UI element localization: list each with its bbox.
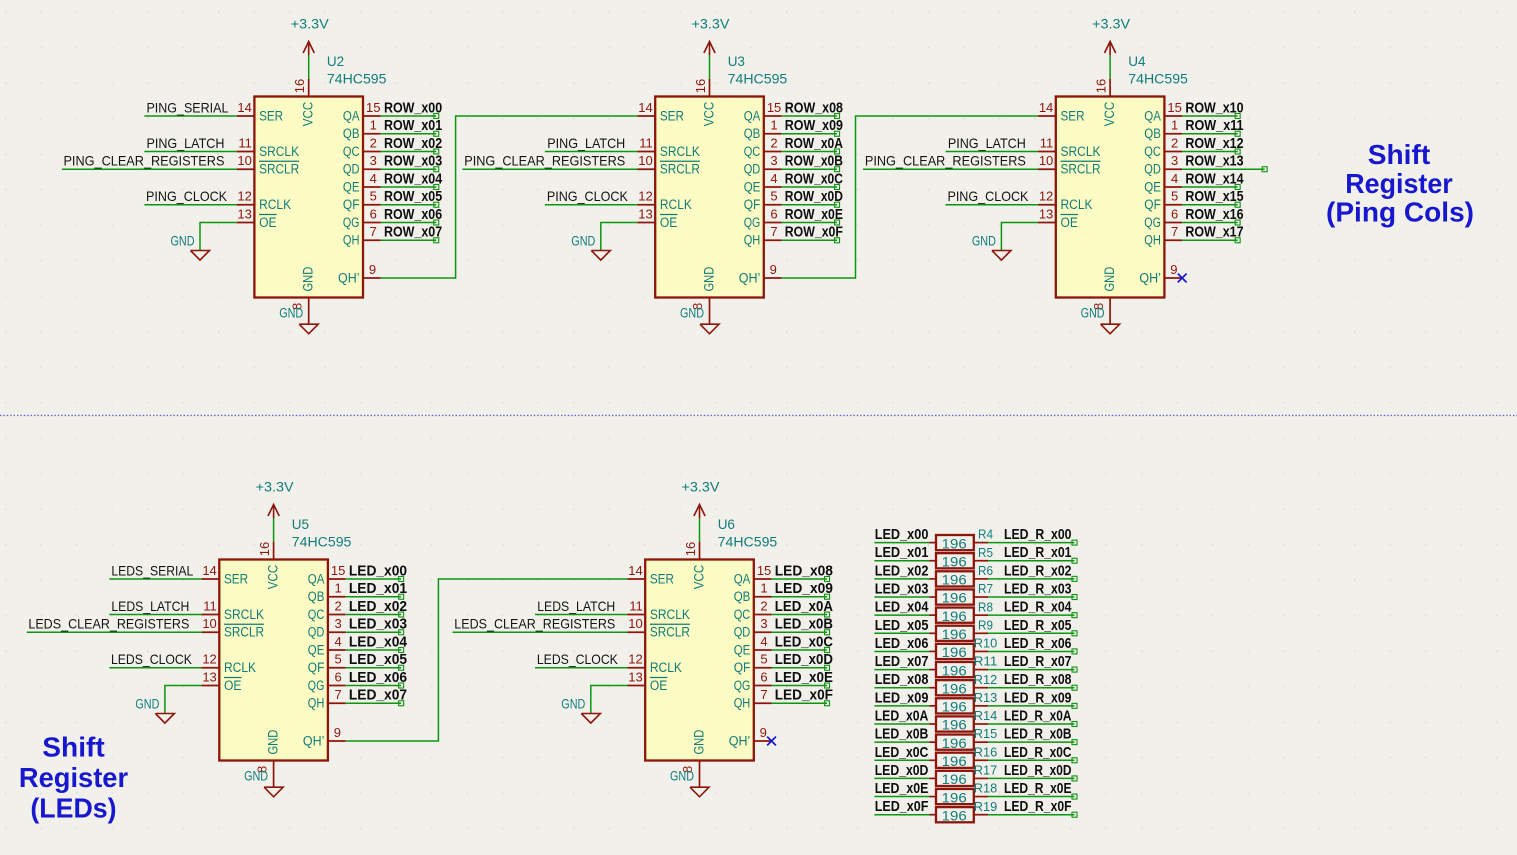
wire net LED_x04 to R8 [874, 614, 936, 616]
svg-text:LED_x08: LED_x08 [875, 671, 929, 688]
svg-text:LED_x0F: LED_x0F [875, 798, 929, 815]
svg-text:QA: QA [1144, 108, 1161, 123]
pin 15 (QA) of U5 [328, 563, 346, 579]
net label LEDS_CLOCK [111, 651, 193, 667]
svg-text:R17: R17 [974, 763, 998, 778]
net label LED_x01 [875, 544, 929, 561]
wire net LED_x06 to R10 [874, 650, 936, 652]
svg-text:QF: QF [1144, 197, 1161, 212]
svg-text:U6: U6 [718, 517, 735, 532]
wire net ROW_x09 from U3 [782, 131, 840, 136]
pin 6 (QG) of U2 [363, 206, 381, 222]
svg-text:QG: QG [1144, 215, 1161, 230]
pin 3 (QD) of U2 [363, 153, 381, 169]
pin 10 of U2 [237, 153, 255, 169]
net label LEDS_SERIAL [111, 562, 193, 578]
net label LED_R_x0C [1004, 744, 1072, 761]
wire net LED_R_x00 from R4 [974, 540, 1077, 545]
wire net LED_R_x0F from R19 [974, 812, 1077, 817]
svg-text:5: 5 [370, 189, 377, 204]
svg-text:R11: R11 [974, 654, 998, 669]
svg-text:LED_x01: LED_x01 [875, 544, 929, 561]
wire net LED_x05 to R9 [874, 632, 936, 634]
svg-text:(LEDs): (LEDs) [30, 793, 116, 824]
pin 15 (QA) of U3 [764, 100, 782, 116]
svg-text:R16: R16 [974, 744, 998, 759]
net label LED_x0A [775, 598, 833, 615]
svg-text:LED_x01: LED_x01 [349, 580, 407, 597]
pin 2 (QC) of U6 [754, 598, 772, 614]
svg-text:QD: QD [343, 162, 360, 177]
svg-text:16: 16 [693, 79, 708, 93]
svg-text:LED_R_x0A: LED_R_x0A [1004, 708, 1072, 725]
svg-text:QE: QE [744, 179, 761, 194]
net label LED_x05 [875, 617, 929, 634]
pin 4 (QE) of U3 [764, 171, 782, 187]
ground symbol below U5 [244, 769, 283, 797]
pin 3 (QD) of U6 [754, 616, 772, 632]
svg-text:13: 13 [638, 206, 652, 221]
pin 15 (QA) of U4 [1164, 100, 1182, 116]
pin 12 of U6 [627, 652, 645, 668]
svg-text:QH’: QH’ [338, 270, 360, 285]
power +3.3V above U4 [1092, 16, 1130, 78]
svg-text:+3.3V: +3.3V [682, 479, 720, 494]
svg-text:LED_x0A: LED_x0A [875, 708, 929, 725]
resistor R19 196 [936, 799, 997, 824]
svg-text:PING_CLEAR_REGISTERS: PING_CLEAR_REGISTERS [865, 153, 1026, 169]
svg-text:196: 196 [942, 736, 967, 751]
net label LED_x04 [875, 599, 929, 616]
svg-text:LED_R_x0F: LED_R_x0F [1004, 798, 1072, 815]
svg-text:13: 13 [202, 669, 216, 684]
net label ROW_x05 [384, 188, 442, 205]
svg-text:LED_x07: LED_x07 [349, 687, 407, 704]
wire net LED_x08 from U6 [772, 577, 830, 582]
svg-text:5: 5 [770, 189, 777, 204]
svg-text:LED_R_x01: LED_R_x01 [1004, 544, 1072, 561]
pin 15 (QA) of U2 [363, 100, 381, 116]
pin 11 of U2 [237, 135, 255, 151]
pin 12 of U5 [202, 652, 220, 668]
svg-text:LED_R_x04: LED_R_x04 [1004, 599, 1072, 616]
wire net LED_R_x0C from R16 [974, 758, 1077, 763]
pin 16 VCC of U5 [257, 542, 274, 560]
svg-text:196: 196 [942, 645, 967, 660]
net label LED_x07 [349, 687, 407, 704]
pin 13 of U6 [627, 669, 645, 685]
svg-text:QB: QB [308, 589, 325, 604]
wire OE of U2 to ground [200, 223, 237, 251]
svg-text:1: 1 [1171, 118, 1178, 133]
svg-text:LED_x0E: LED_x0E [775, 669, 833, 686]
svg-text:LED_R_x08: LED_R_x08 [1004, 671, 1072, 688]
svg-text:LED_x0E: LED_x0E [875, 780, 929, 797]
wire net LED_R_x0E from R18 [974, 794, 1077, 799]
svg-text:+3.3V: +3.3V [256, 479, 294, 494]
wire OE of U4 to ground [1001, 223, 1038, 251]
svg-text:QH’: QH’ [739, 270, 761, 285]
svg-text:RCLK: RCLK [660, 197, 692, 212]
pin 16 VCC of U2 [292, 79, 309, 97]
wire net LED_x04 from U5 [346, 648, 404, 653]
wire net LED_R_x02 from R6 [974, 576, 1077, 581]
pin 14 of U3 [637, 100, 655, 116]
svg-text:GND: GND [279, 306, 303, 321]
svg-text:LED_x03: LED_x03 [875, 581, 929, 598]
net label LED_R_x02 [1004, 562, 1072, 579]
wire net PING_CLEAR_REGISTERS to pin of U2 [62, 168, 237, 170]
wire net PING_CLOCK to pin of U3 [545, 204, 638, 206]
svg-text:74HC595: 74HC595 [718, 535, 778, 550]
svg-text:ROW_x16: ROW_x16 [1185, 206, 1243, 223]
ground symbol at OE of U5 [135, 697, 174, 724]
svg-text:R13: R13 [974, 690, 998, 705]
svg-text:QC: QC [308, 607, 325, 622]
pin 3 (QD) of U4 [1164, 153, 1182, 169]
svg-text:6: 6 [770, 206, 777, 221]
svg-text:1: 1 [370, 118, 377, 133]
ground symbol at OE of U4 [972, 234, 1011, 261]
svg-text:196: 196 [942, 681, 967, 696]
wire U5 QH' to U6 SER [346, 579, 628, 741]
resistor R12 196 [936, 672, 997, 697]
svg-text:QA: QA [343, 108, 360, 123]
net label PING_CLEAR_REGISTERS [865, 153, 1026, 169]
svg-text:6: 6 [1171, 206, 1178, 221]
title note: Shift Register (Ping Cols) [1326, 139, 1474, 227]
svg-text:QD: QD [308, 625, 325, 640]
wire U3 QH' to U4 SER [782, 116, 1039, 278]
svg-text:6: 6 [760, 669, 767, 684]
svg-text:LED_x0D: LED_x0D [775, 651, 833, 668]
wire net LED_x03 from U5 [346, 630, 404, 635]
svg-text:R9: R9 [978, 617, 993, 632]
net label LED_x09 [775, 580, 833, 597]
svg-text:QH’: QH’ [729, 733, 751, 748]
net label LED_x08 [875, 671, 929, 688]
wire net ROW_x0C from U3 [782, 185, 840, 190]
net label LED_x0E [775, 669, 833, 686]
wire net LED_R_x07 from R11 [974, 667, 1077, 672]
svg-text:GND: GND [244, 769, 268, 784]
wire net LED_x00 to R4 [874, 542, 936, 544]
net label LED_x00 [349, 562, 407, 579]
svg-text:LEDS_CLOCK: LEDS_CLOCK [111, 651, 193, 667]
net label ROW_x0A [785, 135, 843, 152]
svg-text:QB: QB [734, 589, 751, 604]
net label LED_x01 [349, 580, 407, 597]
svg-text:GND: GND [571, 234, 595, 249]
svg-text:LED_x0B: LED_x0B [875, 726, 929, 743]
pin 5 (QF) of U4 [1164, 189, 1182, 205]
resistor R5 196 [936, 545, 993, 570]
svg-text:4: 4 [335, 634, 342, 649]
reference U2 [327, 54, 344, 69]
net label ROW_x01 [384, 117, 442, 134]
svg-text:ROW_x0B: ROW_x0B [785, 153, 843, 170]
svg-text:7: 7 [760, 687, 767, 702]
resistor R17 196 [936, 763, 997, 788]
svg-text:11: 11 [629, 598, 643, 613]
wire net LED_x0E from U6 [772, 683, 830, 688]
svg-text:GND: GND [972, 234, 996, 249]
net label LED_x00 [875, 526, 929, 543]
svg-text:LEDS_CLEAR_REGISTERS: LEDS_CLEAR_REGISTERS [28, 616, 189, 632]
pin 5 (QF) of U6 [754, 652, 772, 668]
svg-text:LEDS_CLEAR_REGISTERS: LEDS_CLEAR_REGISTERS [454, 616, 615, 632]
net label LED_x0B [875, 726, 929, 743]
power +3.3V above U3 [692, 16, 730, 78]
svg-text:PING_SERIAL: PING_SERIAL [146, 99, 228, 115]
svg-text:U2: U2 [327, 54, 344, 69]
net label ROW_x03 [384, 153, 442, 170]
svg-text:Register: Register [1345, 168, 1452, 199]
svg-text:QA: QA [744, 108, 761, 123]
svg-text:2: 2 [370, 135, 377, 150]
wire net LEDS_CLOCK to pin of U6 [535, 667, 627, 669]
net label LED_R_x04 [1004, 599, 1072, 616]
svg-text:VCC: VCC [266, 564, 281, 589]
svg-text:+3.3V: +3.3V [692, 16, 730, 31]
pin 2 (QC) of U4 [1164, 135, 1182, 151]
pin 9 (QH') of U6 [754, 725, 772, 741]
svg-text:SRCLK: SRCLK [660, 144, 700, 159]
ground symbol at OE of U3 [571, 234, 610, 261]
svg-text:OE: OE [1061, 215, 1079, 230]
svg-text:74HC595: 74HC595 [728, 72, 788, 87]
net label LED_x03 [875, 581, 929, 598]
svg-text:196: 196 [942, 536, 967, 551]
svg-text:ROW_x0C: ROW_x0C [785, 170, 843, 187]
svg-text:QH: QH [1144, 233, 1161, 248]
svg-text:196: 196 [942, 554, 967, 569]
ground symbol at OE of U6 [561, 697, 600, 724]
svg-text:QG: QG [744, 215, 761, 230]
svg-text:LED_x0A: LED_x0A [775, 598, 833, 615]
pin 8 GND of U3 [690, 298, 709, 325]
svg-text:R7: R7 [978, 581, 993, 596]
net label PING_CLOCK [146, 188, 228, 204]
svg-text:R18: R18 [974, 781, 998, 796]
svg-text:+3.3V: +3.3V [291, 16, 329, 31]
pin 15 (QA) of U6 [754, 563, 772, 579]
pin 11 of U5 [202, 598, 220, 614]
svg-text:ROW_x0A: ROW_x0A [785, 135, 843, 152]
resistor R13 196 [936, 690, 997, 715]
net label LED_R_x0A [1004, 708, 1072, 725]
svg-text:ROW_x02: ROW_x02 [384, 135, 442, 152]
net label LED_x02 [875, 562, 929, 579]
IC U2 74HC595 body [254, 97, 363, 298]
net label ROW_x11 [1185, 117, 1243, 134]
svg-text:ROW_x0D: ROW_x0D [785, 188, 843, 205]
ground symbol below U6 [670, 769, 709, 797]
svg-text:RCLK: RCLK [224, 660, 256, 675]
IC U6 74HC595 body [645, 560, 754, 761]
svg-text:11: 11 [238, 135, 252, 150]
pin 16 VCC of U6 [683, 542, 700, 560]
wire net ROW_x16 from U4 [1182, 220, 1240, 225]
svg-text:R5: R5 [978, 545, 993, 560]
svg-text:QC: QC [1144, 144, 1161, 159]
svg-text:ROW_x03: ROW_x03 [384, 153, 442, 170]
wire net LED_x0C to R16 [874, 759, 936, 761]
wire net LED_x0C from U6 [772, 648, 830, 653]
net label LED_x0F [775, 687, 833, 704]
svg-text:LED_R_x0B: LED_R_x0B [1004, 726, 1072, 743]
svg-text:SER: SER [650, 571, 674, 586]
svg-text:U5: U5 [292, 517, 309, 532]
svg-text:6: 6 [370, 206, 377, 221]
wire net LED_x0B from U6 [772, 630, 830, 635]
svg-text:14: 14 [202, 563, 216, 578]
net label LED_x0F [875, 798, 929, 815]
net label ROW_x07 [384, 224, 442, 241]
pin 6 (QG) of U5 [328, 669, 346, 685]
wire net ROW_x13 from U4 [1182, 167, 1267, 172]
wire net LED_x02 to R6 [874, 578, 936, 580]
net label LED_x05 [349, 651, 407, 668]
svg-text:2: 2 [1171, 135, 1178, 150]
svg-text:QE: QE [734, 642, 751, 657]
pin 5 (QF) of U3 [764, 189, 782, 205]
ground symbol below U2 [279, 306, 318, 334]
wire net LED_x09 from U6 [772, 594, 830, 599]
svg-text:GND: GND [135, 697, 159, 712]
svg-text:OE: OE [660, 215, 678, 230]
svg-text:QH: QH [343, 233, 360, 248]
svg-text:GND: GND [301, 266, 316, 291]
pin 1 (QB) of U5 [328, 581, 346, 597]
net label ROW_x0B [785, 153, 843, 170]
svg-text:GND: GND [702, 266, 717, 291]
svg-text:LED_R_x00: LED_R_x00 [1004, 526, 1072, 543]
wire net LED_x05 from U5 [346, 665, 404, 670]
net label LED_x06 [875, 635, 929, 652]
svg-text:9: 9 [334, 725, 341, 740]
svg-text:QF: QF [744, 197, 761, 212]
wire net ROW_x02 from U2 [381, 149, 439, 154]
svg-text:3: 3 [370, 153, 377, 168]
svg-text:+3.3V: +3.3V [1092, 16, 1130, 31]
svg-text:ROW_x17: ROW_x17 [1185, 224, 1243, 241]
wire net PING_CLOCK to pin of U4 [946, 204, 1039, 206]
IC U3 74HC595 body [655, 97, 764, 298]
wire net ROW_x17 from U4 [1182, 238, 1240, 243]
wire net ROW_x04 from U2 [381, 185, 439, 190]
svg-text:RCLK: RCLK [1061, 197, 1093, 212]
pin 13 of U4 [1038, 206, 1056, 222]
svg-text:LED_R_x02: LED_R_x02 [1004, 562, 1072, 579]
svg-text:SRCLK: SRCLK [259, 144, 299, 159]
svg-text:OE: OE [259, 215, 277, 230]
svg-text:LED_x0B: LED_x0B [775, 616, 833, 633]
no-connect flag on U6 QH' [767, 737, 776, 746]
net label LED_x0D [775, 651, 833, 668]
svg-text:R8: R8 [978, 599, 993, 614]
pin 3 (QD) of U3 [764, 153, 782, 169]
pin 16 VCC of U3 [693, 79, 710, 97]
svg-text:QG: QG [308, 678, 325, 693]
net label LED_x0B [775, 616, 833, 633]
svg-text:ROW_x04: ROW_x04 [384, 170, 443, 187]
net label ROW_x00 [384, 99, 442, 116]
svg-text:LED_R_x06: LED_R_x06 [1004, 635, 1072, 652]
svg-text:10: 10 [638, 153, 652, 168]
svg-text:SER: SER [660, 108, 684, 123]
net label LEDS_CLOCK [537, 651, 619, 667]
pin 4 (QE) of U5 [328, 634, 346, 650]
resistor R14 196 [936, 708, 997, 733]
svg-text:196: 196 [942, 663, 967, 678]
svg-text:74HC595: 74HC595 [1128, 72, 1188, 87]
svg-text:U4: U4 [1128, 54, 1146, 69]
pin 11 of U4 [1038, 135, 1056, 151]
resistor R15 196 [936, 726, 997, 751]
pin 4 (QE) of U4 [1164, 171, 1182, 187]
svg-text:14: 14 [1039, 100, 1053, 115]
wire net LED_R_x09 from R13 [974, 703, 1077, 708]
value 74HC595 of U3 [728, 72, 788, 87]
svg-text:LED_R_x0C: LED_R_x0C [1004, 744, 1072, 761]
svg-text:1: 1 [335, 581, 342, 596]
svg-text:OE: OE [224, 678, 242, 693]
svg-text:QE: QE [1144, 179, 1161, 194]
svg-text:QB: QB [1144, 126, 1161, 141]
wire net LED_R_x0B from R15 [974, 740, 1077, 745]
wire OE of U3 to ground [601, 223, 638, 251]
wire net LED_x01 from U5 [346, 594, 404, 599]
svg-text:SRCLR: SRCLR [224, 625, 264, 640]
svg-text:7: 7 [1171, 224, 1178, 239]
svg-text:LED_R_x07: LED_R_x07 [1004, 653, 1072, 670]
pin 2 (QC) of U2 [363, 135, 381, 151]
svg-text:196: 196 [942, 754, 967, 769]
net label ROW_x10 [1185, 99, 1243, 116]
svg-text:LED_x03: LED_x03 [349, 616, 407, 633]
pin 6 (QG) of U6 [754, 669, 772, 685]
svg-text:12: 12 [202, 652, 216, 667]
net label ROW_x16 [1185, 206, 1243, 223]
svg-text:LEDS_SERIAL: LEDS_SERIAL [111, 562, 193, 578]
svg-text:1: 1 [770, 118, 777, 133]
wire net LED_x0D from U6 [772, 665, 830, 670]
wire net PING_LATCH to pin of U3 [545, 151, 638, 153]
wire net LEDS_LATCH to pin of U5 [109, 614, 201, 616]
net label LED_R_x03 [1004, 581, 1072, 598]
pin 1 (QB) of U6 [754, 581, 772, 597]
svg-text:ROW_x15: ROW_x15 [1185, 188, 1243, 205]
pin 14 of U6 [627, 563, 645, 579]
wire net LED_x0B to R15 [874, 741, 936, 743]
svg-text:LED_x04: LED_x04 [875, 599, 929, 616]
svg-text:196: 196 [942, 627, 967, 642]
net label ROW_x0C [785, 170, 843, 187]
net label LED_x06 [349, 669, 407, 686]
svg-text:7: 7 [770, 224, 777, 239]
net label PING_LATCH [948, 135, 1026, 151]
pin 5 (QF) of U5 [328, 652, 346, 668]
svg-text:QE: QE [343, 179, 360, 194]
wire OE of U6 to ground [591, 686, 628, 714]
svg-text:LED_x00: LED_x00 [875, 526, 929, 543]
svg-text:5: 5 [760, 652, 767, 667]
wire net ROW_x11 from U4 [1182, 131, 1240, 136]
svg-text:VCC: VCC [702, 101, 717, 126]
resistor R11 196 [936, 654, 997, 679]
wire net PING_CLOCK to pin of U2 [144, 204, 236, 206]
